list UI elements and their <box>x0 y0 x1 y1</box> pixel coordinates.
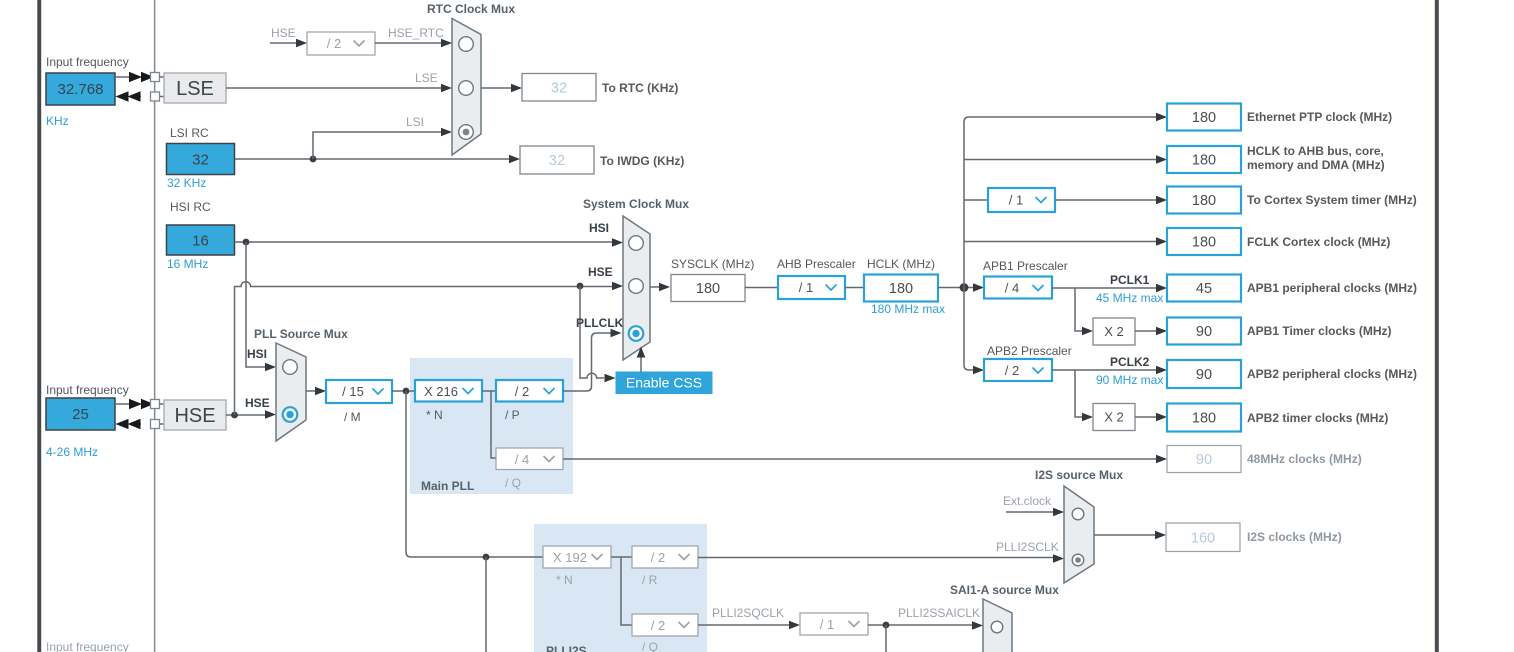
value box SYSCLK 180 <box>671 275 745 302</box>
button Enable CSS <box>616 372 713 395</box>
pin square HSE in <box>151 400 160 409</box>
wire HSE to RTC divider <box>270 39 307 48</box>
svg-text:32 KHz: 32 KHz <box>167 176 206 190</box>
value box 48MHz clocks 90 <box>1167 446 1241 473</box>
svg-text:To RTC (KHz): To RTC (KHz) <box>602 81 678 95</box>
wire bus to FCLK <box>964 237 1167 246</box>
svg-text:180: 180 <box>1192 411 1216 427</box>
value box APB1 timer 90 <box>1167 318 1241 345</box>
svg-text:PLLCLK: PLLCLK <box>576 316 624 330</box>
svg-text:X 2: X 2 <box>1104 324 1124 339</box>
svg-text:Enable CSS: Enable CSS <box>626 375 702 391</box>
wire *N to /P <box>482 390 496 392</box>
svg-text:System Clock Mux: System Clock Mux <box>583 197 689 211</box>
wire HSE box to pin (return) <box>116 419 165 429</box>
mux PLL Source Mux <box>276 343 306 441</box>
divider AHB Prescaler /1 dropdown <box>778 276 845 299</box>
svg-text:/ R: / R <box>642 573 658 587</box>
oscillator LSI 32 <box>167 144 235 175</box>
radio LSI (selected) <box>459 125 474 140</box>
svg-text:16 MHz: 16 MHz <box>167 257 208 271</box>
svg-text:HSE_RTC: HSE_RTC <box>388 26 444 40</box>
wire HSE to Enable CSS (hop over PLLCLK riser) <box>580 286 616 382</box>
svg-text:4-26 MHz: 4-26 MHz <box>46 445 98 459</box>
svg-text:25: 25 <box>72 406 89 423</box>
node HCLK distribution <box>960 283 969 292</box>
svg-text:SYSCLK (MHz): SYSCLK (MHz) <box>671 257 754 271</box>
wire /Q to 48MHz clocks <box>563 455 1167 464</box>
wire SAI divider to SAI mux <box>868 621 983 630</box>
divider /P dropdown /2 <box>496 380 563 402</box>
svg-text:Ext.clock: Ext.clock <box>1003 494 1052 508</box>
svg-text:90 MHz max: 90 MHz max <box>1096 373 1163 387</box>
svg-text:180: 180 <box>696 281 720 297</box>
svg-text:180: 180 <box>1192 153 1216 169</box>
svg-text:AHB Prescaler: AHB Prescaler <box>777 257 856 271</box>
svg-text:/ 2: / 2 <box>651 550 665 565</box>
svg-text:LSI: LSI <box>406 115 424 129</box>
wire APB2 branch to X2 <box>1075 370 1093 421</box>
input frequency box 32.768 <box>46 73 115 105</box>
divider APB1 Prescaler /4 dropdown <box>984 277 1052 299</box>
value box Cortex timer 180 <box>1167 187 1241 214</box>
wire pin to LSE box <box>160 76 165 78</box>
svg-text:APB1 peripheral clocks (MHz): APB1 peripheral clocks (MHz) <box>1247 281 1417 295</box>
value box FCLK 180 <box>1167 228 1241 255</box>
svg-text:HCLK (MHz): HCLK (MHz) <box>867 257 935 271</box>
svg-text:X 192: X 192 <box>553 550 587 565</box>
wire LSE to RTC mux <box>226 84 452 93</box>
radio Ext.clock (unselected) <box>1072 508 1084 520</box>
pin square LSE out <box>151 92 160 101</box>
svg-text:* N: * N <box>556 573 573 587</box>
divider /M dropdown /15 <box>326 380 392 403</box>
value box I2S clocks 160 <box>1166 523 1240 552</box>
svg-text:LSE: LSE <box>415 71 438 85</box>
multiplier PLLI2S *N dropdown X192 <box>543 546 611 568</box>
svg-text:To Cortex System timer (MHz): To Cortex System timer (MHz) <box>1247 193 1417 207</box>
svg-text:32: 32 <box>549 153 565 169</box>
wire HSE_RTC to RTC mux <box>375 39 452 48</box>
wire I2S mux to I2S clocks box <box>1094 531 1166 540</box>
svg-text:APB1 Prescaler: APB1 Prescaler <box>983 259 1068 273</box>
svg-text:PCLK2: PCLK2 <box>1110 355 1150 369</box>
divider APB2 Prescaler /2 dropdown <box>984 359 1052 381</box>
pin square LSE in <box>151 73 160 82</box>
wire HCLK bus vertical <box>964 117 1156 370</box>
svg-text:APB2 Prescaler: APB2 Prescaler <box>987 344 1072 358</box>
wire RTC mux to To RTC box <box>481 84 522 93</box>
svg-text:HSI: HSI <box>247 347 267 361</box>
node HSI branch <box>243 239 250 246</box>
svg-text:/ 2: / 2 <box>1005 363 1019 378</box>
svg-text:180: 180 <box>1192 235 1216 251</box>
svg-text:APB2 timer clocks (MHz): APB2 timer clocks (MHz) <box>1247 411 1388 425</box>
radio HSE (unselected) <box>629 279 644 294</box>
wire bus to Ethernet PTP <box>1156 113 1167 122</box>
svg-text:90: 90 <box>1196 452 1212 468</box>
wire Enable CSS to sys mux (up arrow) <box>637 347 646 372</box>
mux SAI1-A source Mux (clipped) <box>983 599 1012 652</box>
node LSI branch <box>310 156 317 163</box>
wire 32.768 to LSE pin <box>115 72 154 82</box>
svg-text:180 MHz max: 180 MHz max <box>871 302 945 316</box>
svg-text:180: 180 <box>1192 193 1216 209</box>
svg-text:RTC Clock Mux: RTC Clock Mux <box>427 2 515 16</box>
svg-text:X 2: X 2 <box>1104 410 1124 425</box>
svg-text:KHz: KHz <box>46 114 69 128</box>
wire HSI to system clock mux <box>235 238 624 247</box>
svg-text:/ 15: / 15 <box>342 384 364 399</box>
node HSE to CSS branch <box>577 283 584 290</box>
svg-text:/ 1: / 1 <box>799 280 813 295</box>
divider PLLI2S /R dropdown /2 <box>632 546 698 568</box>
radio PLLCLK (selected blue) <box>629 326 644 341</box>
svg-text:HSE: HSE <box>174 405 215 427</box>
wire APB1 branch to X2 <box>1075 288 1093 335</box>
wire PLL branch down to PLLI2S <box>406 391 543 557</box>
svg-text:/ 2: / 2 <box>515 384 529 399</box>
radio HSI PLL (unselected) <box>283 360 298 375</box>
svg-text:/ 2: / 2 <box>327 36 341 51</box>
svg-text:LSI RC: LSI RC <box>170 126 209 140</box>
node SAI branch <box>883 622 890 629</box>
svg-text:APB1 Timer clocks (MHz): APB1 Timer clocks (MHz) <box>1247 324 1392 338</box>
oscillator HSE <box>164 400 226 430</box>
svg-text:Input frequency: Input frequency <box>46 383 129 397</box>
svg-text:PLLI2SCLK: PLLI2SCLK <box>996 540 1059 554</box>
component pin rail line <box>154 0 156 652</box>
svg-text:PCLK1: PCLK1 <box>1110 273 1150 287</box>
svg-text:HSE: HSE <box>588 265 613 279</box>
svg-text:HCLK to AHB bus, core,: HCLK to AHB bus, core, <box>1247 144 1384 158</box>
right page border line <box>1435 0 1439 652</box>
svg-text:/ 4: / 4 <box>515 452 529 467</box>
svg-text:48MHz clocks (MHz): 48MHz clocks (MHz) <box>1247 452 1362 466</box>
svg-text:APB2 peripheral clocks (MHz): APB2 peripheral clocks (MHz) <box>1247 367 1417 381</box>
svg-text:45: 45 <box>1196 281 1212 297</box>
svg-text:To IWDG (KHz): To IWDG (KHz) <box>600 154 684 168</box>
svg-text:/ 1: / 1 <box>820 617 834 632</box>
wire SAI branch down (clipped) <box>885 625 887 652</box>
svg-text:/ 4: / 4 <box>1005 281 1019 296</box>
wire LSI branch to RTC mux <box>313 128 452 159</box>
value box To RTC 32 <box>522 74 596 102</box>
multiplier *N dropdown X216 <box>415 380 482 402</box>
svg-text:I2S clocks (MHz): I2S clocks (MHz) <box>1247 530 1342 544</box>
svg-text:HSE: HSE <box>245 396 270 410</box>
wire LSE box to pin (return) <box>116 91 165 101</box>
divider SAI /1 dropdown <box>800 613 868 635</box>
wire X2 to APB2 timer box <box>1135 413 1167 422</box>
wire branch down to PLLSAI (clipped) <box>485 557 487 652</box>
wire 25 to HSE pin <box>115 399 154 409</box>
pin square HSE out <box>151 420 160 429</box>
mux I2S source Mux <box>1064 486 1094 583</box>
svg-text:180: 180 <box>889 281 913 297</box>
svg-text:/ M: / M <box>344 410 361 424</box>
divider PLLI2S /Q dropdown /2 <box>632 614 698 636</box>
value box APB1 peripheral 45 <box>1167 275 1241 302</box>
svg-text:PLLI2SSAICLK: PLLI2SSAICLK <box>898 606 980 620</box>
svg-text:160: 160 <box>1191 531 1215 547</box>
radio PLLI2SCLK (selected) <box>1072 554 1084 566</box>
wire bus to APB2 prescaler <box>973 366 984 375</box>
svg-text:HSI RC: HSI RC <box>170 200 211 214</box>
svg-text:HSE: HSE <box>271 26 296 40</box>
svg-text:memory and DMA (MHz): memory and DMA (MHz) <box>1247 158 1385 172</box>
mux RTC Clock Mux <box>452 19 481 156</box>
svg-text:/ 1: / 1 <box>1009 193 1023 208</box>
wire /M to *N <box>392 390 415 392</box>
wire pin to HSE box <box>160 403 165 405</box>
wire Ext.clock to I2S mux <box>1006 508 1064 517</box>
svg-text:FCLK Cortex clock (MHz): FCLK Cortex clock (MHz) <box>1247 235 1390 249</box>
mux System Clock Mux <box>623 216 650 360</box>
panel PLLI2S <box>534 524 707 652</box>
svg-text:PLLI2SQCLK: PLLI2SQCLK <box>712 606 784 620</box>
svg-text:90: 90 <box>1196 324 1212 340</box>
svg-text:Main PLL: Main PLL <box>421 479 474 493</box>
svg-text:32: 32 <box>551 81 567 97</box>
value box HCLK AHB 180 <box>1167 146 1241 173</box>
value box To IWDG 32 <box>520 146 594 174</box>
svg-text:32.768: 32.768 <box>58 81 104 98</box>
svg-text:/ Q: / Q <box>505 476 521 490</box>
wire cortex divider to box <box>1055 196 1167 205</box>
svg-text:X 216: X 216 <box>424 384 458 399</box>
wire LSI to IWDG <box>235 155 521 164</box>
oscillator LSE <box>164 73 226 103</box>
svg-text:LSE: LSE <box>176 78 214 100</box>
radio HSI (unselected) <box>629 236 644 251</box>
divider Cortex /1 dropdown <box>988 188 1055 212</box>
divider /Q dropdown /4 <box>496 448 563 470</box>
oscillator HSI 16 <box>167 225 235 255</box>
wire PLLI2SCLK /R to I2S mux <box>698 554 1064 563</box>
value box HCLK 180 <box>864 275 938 302</box>
panel Main PLL <box>410 358 573 494</box>
wire APB1 prescaler to PCLK1 box <box>1052 284 1167 293</box>
multiplier X2 APB1 timers <box>1093 318 1135 345</box>
wire PLLI2S /Q to SAI divider <box>698 621 800 630</box>
left page border line <box>37 0 41 652</box>
wire X2 to APB1 timer box <box>1135 327 1167 336</box>
radio LSE (unselected) <box>459 81 474 96</box>
svg-text:90: 90 <box>1196 367 1212 383</box>
svg-text:I2S source Mux: I2S source Mux <box>1035 468 1123 482</box>
radio HSE_RTC (unselected) <box>459 37 474 52</box>
radio SAI input (unselected) <box>991 621 1003 633</box>
svg-text:32: 32 <box>192 152 209 169</box>
wire PLLI2S *N to /R <box>611 556 632 558</box>
svg-text:HSI: HSI <box>589 221 609 235</box>
multiplier X2 APB2 timers <box>1093 404 1135 431</box>
node HSE branch <box>231 412 238 419</box>
svg-text:/ 2: / 2 <box>651 618 665 633</box>
svg-text:Input frequency: Input frequency <box>46 55 129 69</box>
svg-text:16: 16 <box>192 233 209 250</box>
value box APB2 peripheral 90 <box>1167 360 1241 388</box>
wire bus to HCLK AHB <box>964 155 1167 164</box>
svg-text:/ P: / P <box>505 408 520 422</box>
wire PLLCLK /P to sys mux <box>563 329 622 391</box>
svg-text:PLL Source Mux: PLL Source Mux <box>254 327 348 341</box>
wire APB2 prescaler to PCLK2 box <box>1052 366 1167 375</box>
node PLL input branch <box>403 388 410 395</box>
svg-text:PLLI2S: PLLI2S <box>546 644 587 652</box>
wire HCLK to AHB bus node <box>938 283 984 292</box>
wire PLL mux to /M divider <box>306 387 326 396</box>
svg-text:180: 180 <box>1192 110 1216 126</box>
wire sys mux to SYSCLK box <box>650 283 670 292</box>
svg-text:* N: * N <box>426 408 443 422</box>
wire AHB prescaler to HCLK <box>845 287 864 289</box>
svg-text:SAI1-A source Mux: SAI1-A source Mux <box>950 583 1059 597</box>
svg-text:/ Q: / Q <box>642 640 658 652</box>
svg-text:Input frequency: Input frequency <box>46 640 129 652</box>
wire HSI branch to PLL source mux <box>246 242 276 371</box>
value box Ethernet PTP 180 <box>1167 104 1241 131</box>
wire HSE to PLL source mux <box>226 410 276 419</box>
wire PLLI2S branch to /Q <box>621 557 632 625</box>
label HCLK to AHB bus core memory and DMA <box>1247 144 1385 172</box>
input frequency box 25 <box>46 398 115 430</box>
wire bus to cortex divider <box>964 199 988 201</box>
divider /2 HSE_RTC dropdown <box>307 32 375 55</box>
wire /P branch to /Q <box>491 391 496 458</box>
value box APB2 timer 180 <box>1167 404 1241 432</box>
svg-text:45 MHz max: 45 MHz max <box>1096 291 1163 305</box>
wire SYSCLK to AHB prescaler <box>745 287 778 289</box>
radio HSE PLL (selected blue) <box>283 407 298 422</box>
wire HSE branch to system clock mux (hop over HSI riser) <box>235 282 624 415</box>
svg-text:Ethernet PTP clock (MHz): Ethernet PTP clock (MHz) <box>1247 110 1392 124</box>
node PLLI2S/PLLSAI branch <box>483 554 490 561</box>
